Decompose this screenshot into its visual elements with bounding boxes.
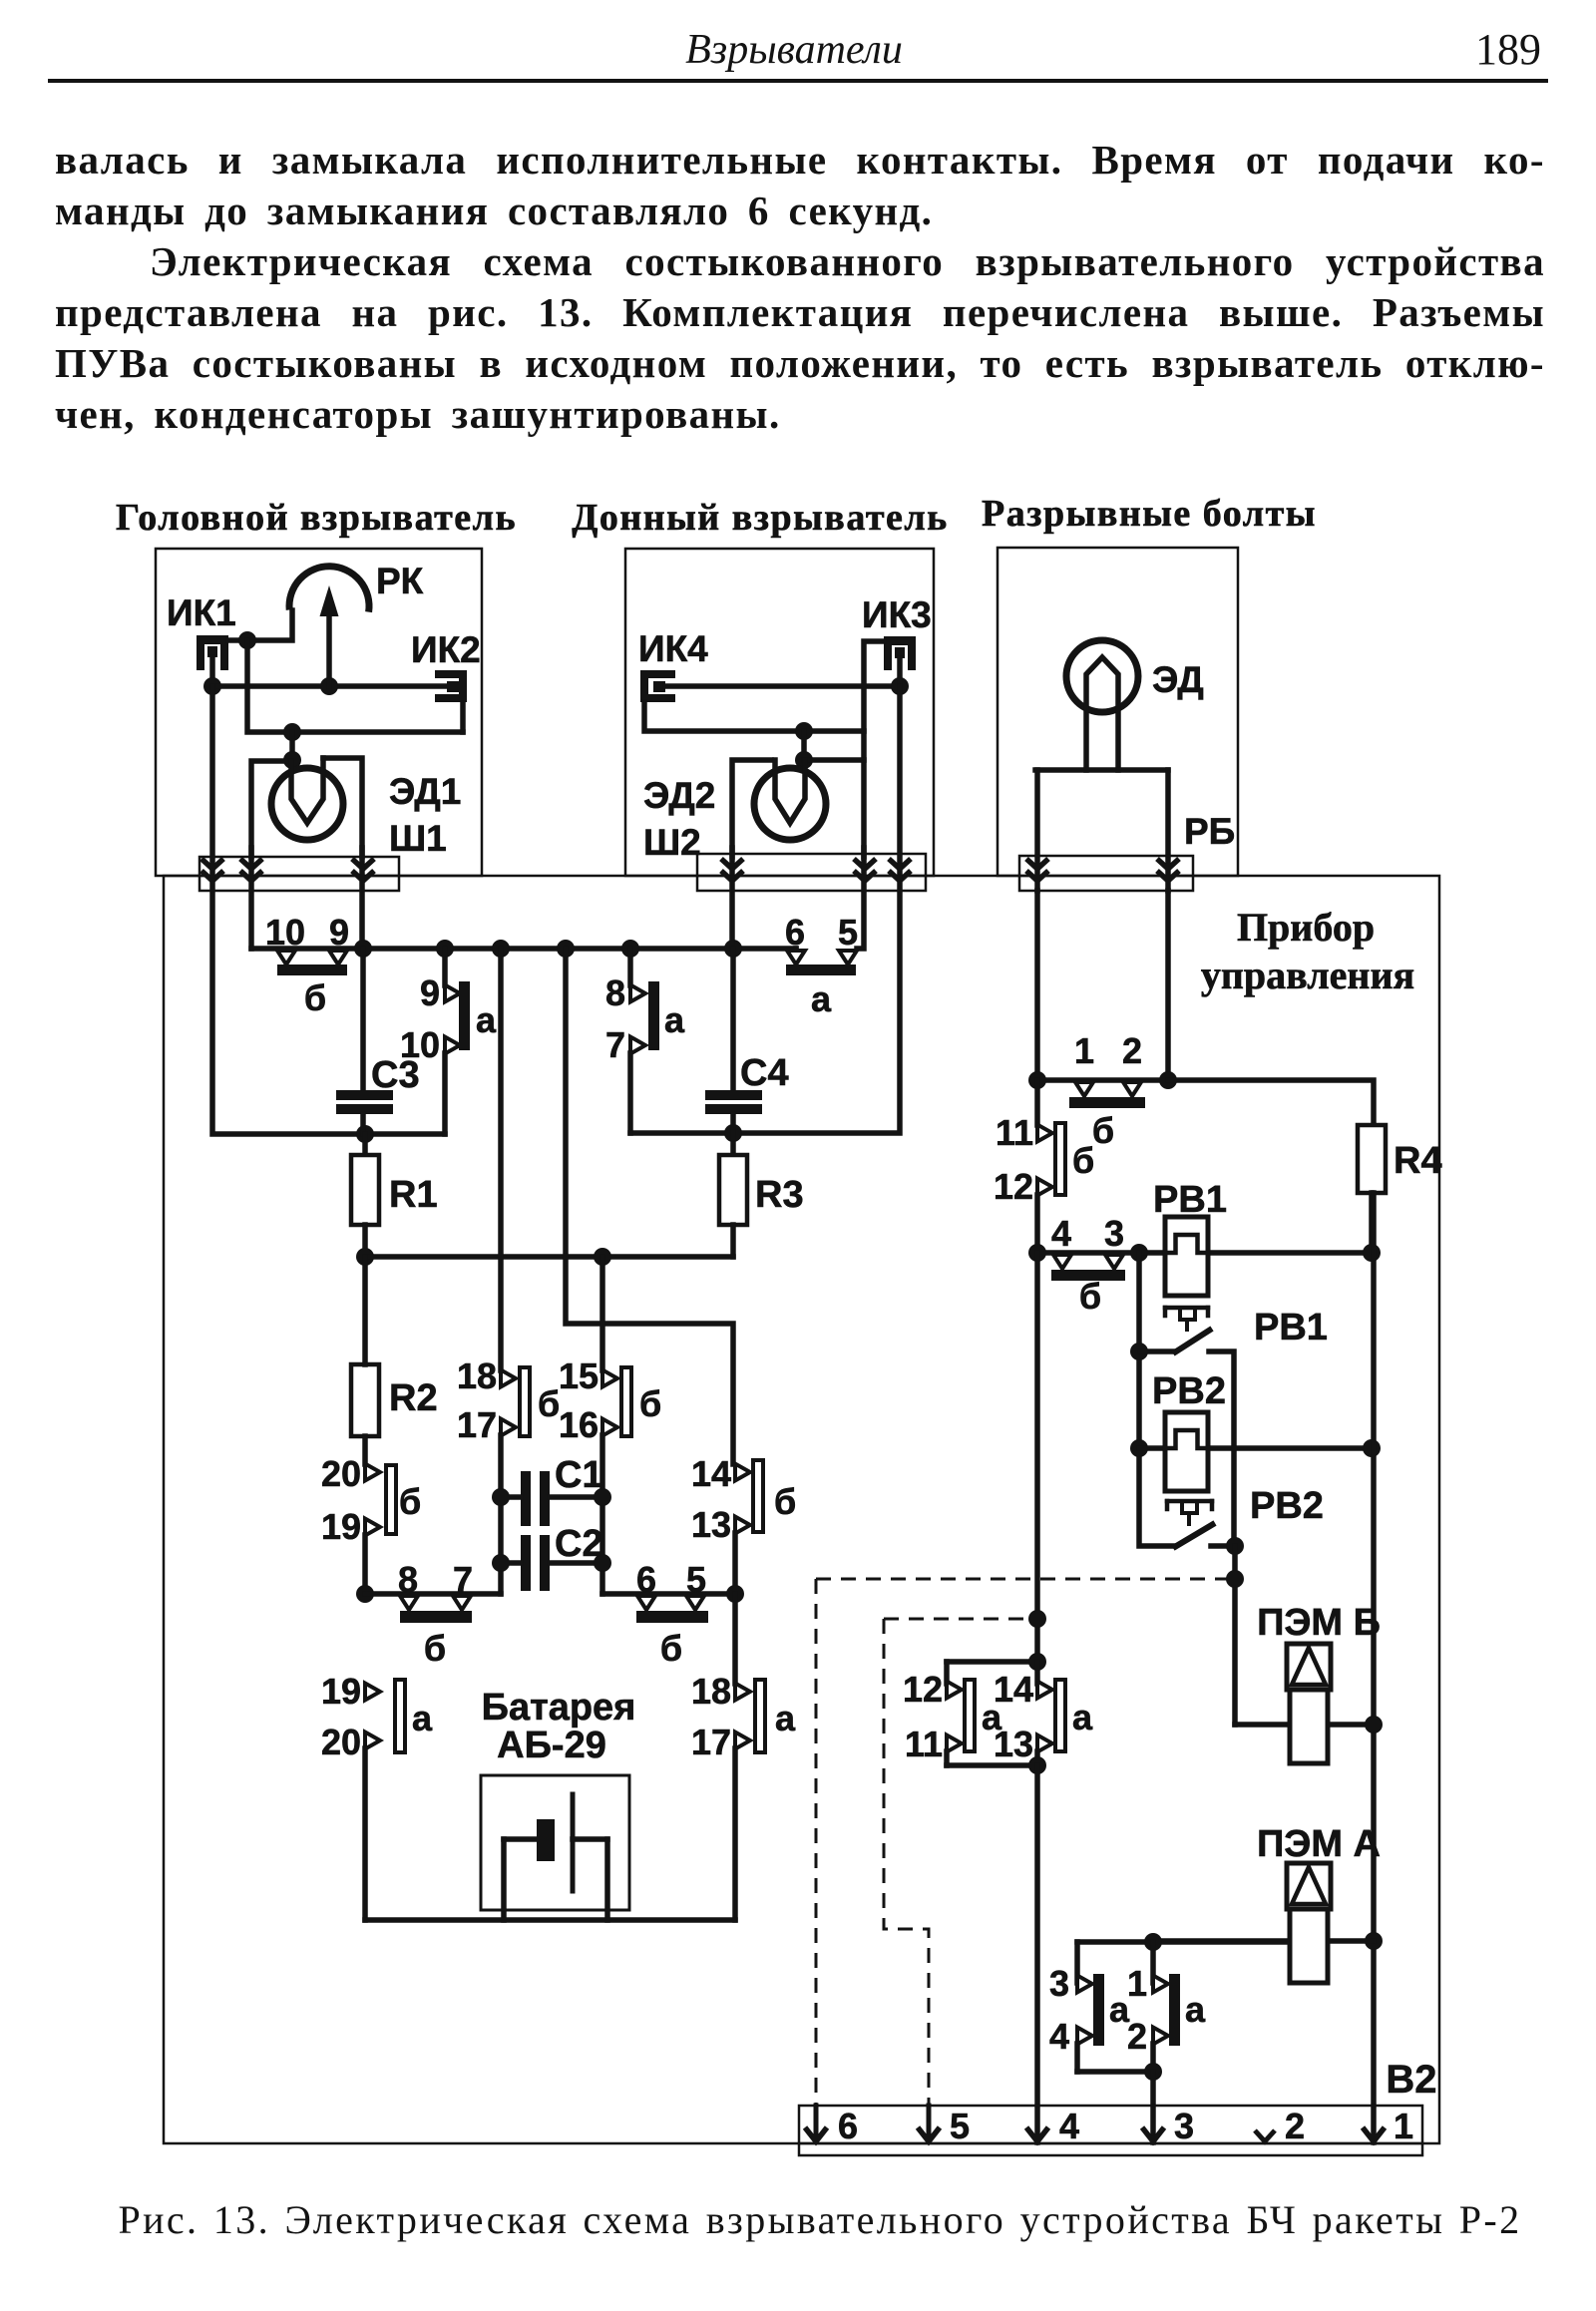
relay coil РВ2 xyxy=(1165,1412,1208,1491)
svg-text:7: 7 xyxy=(453,1559,473,1600)
electric detonator ЭД2 frame right xyxy=(804,757,864,763)
svg-text:РБ: РБ xyxy=(1184,811,1235,852)
svg-text:Ш1: Ш1 xyxy=(389,818,447,859)
contact К10-9 (б) xyxy=(277,951,295,964)
svg-text:б: б xyxy=(1079,1276,1101,1317)
svg-text:3: 3 xyxy=(1174,2106,1194,2146)
В2 pin 1 xyxy=(1363,2127,1385,2141)
dashed linkage line 1 xyxy=(816,1578,1235,1581)
svg-text:б: б xyxy=(538,1383,560,1424)
svg-text:18: 18 xyxy=(691,1671,731,1712)
svg-text:б: б xyxy=(399,1481,421,1522)
connector Ш1 xyxy=(199,857,399,891)
svg-text:20: 20 xyxy=(321,1722,361,1762)
electric detonator ЭД (РБ) xyxy=(1066,640,1138,712)
РК arrow xyxy=(326,608,332,686)
connector link 15/16 (б) xyxy=(599,1257,605,1370)
connector link 1/2 (а) xyxy=(1150,1942,1156,1983)
svg-text:9: 9 xyxy=(329,912,349,953)
contact К6-5 (б) rail xyxy=(602,1591,735,1597)
contact К6-5 (б) xyxy=(637,1596,655,1610)
electric detonator ЭД1 frame right xyxy=(323,758,362,857)
battery АБ-29 cell xyxy=(537,1819,555,1861)
wire РВ2 switch down to ПЭМ Б xyxy=(1232,1546,1238,1725)
dashed linkage vertical 2 to В2 pin 5 xyxy=(884,1619,929,2106)
wire battery terminals xyxy=(504,1836,537,1842)
box Разрывные болты xyxy=(997,548,1238,876)
inertial contact ИК4 xyxy=(640,670,675,678)
svg-text:14: 14 xyxy=(691,1453,731,1494)
В2 pin 4 xyxy=(1026,2127,1048,2141)
connector link 18/17 (б) xyxy=(498,949,504,1370)
svg-text:Ш2: Ш2 xyxy=(643,822,701,863)
electric detonator ЭД1 frame left xyxy=(251,761,287,857)
wire to В2 pin 4 xyxy=(1034,1765,1040,2142)
wire ИК4 tongue to ИК3 node xyxy=(665,683,900,689)
wire to ЭД1 xyxy=(289,732,295,760)
svg-text:ПЭМ А: ПЭМ А xyxy=(1257,1823,1381,1865)
svg-text:R4: R4 xyxy=(1394,1140,1442,1182)
node РВ1 switch pivot xyxy=(1130,1343,1148,1360)
battery АБ-29 box xyxy=(481,1775,629,1910)
wire Ш2 pin mid (ЭД2 right) to contact 5 xyxy=(857,848,864,949)
svg-text:б: б xyxy=(1092,1110,1114,1151)
node ЭД1 feed xyxy=(283,723,301,741)
squib electromagnet ПЭМ А xyxy=(1287,1863,1331,1909)
wire yoke left leg to connector РБ xyxy=(1034,770,1040,891)
node ИК1/РК/ИК2 line left xyxy=(203,677,221,695)
svg-text:ИК1: ИК1 xyxy=(167,592,236,633)
node ИК3 xyxy=(891,677,909,695)
svg-text:а: а xyxy=(664,999,685,1040)
resistor R3 xyxy=(719,1155,747,1225)
contact К4-3 (б) xyxy=(1053,1255,1071,1269)
svg-text:ИК2: ИК2 xyxy=(411,629,481,670)
resistor R2 xyxy=(351,1364,379,1436)
connector link 20/19 (б) xyxy=(362,1436,368,1464)
connector link 14/13 (а) xyxy=(1034,1662,1040,1684)
svg-text:16: 16 xyxy=(559,1404,598,1445)
svg-text:4: 4 xyxy=(1049,2016,1069,2057)
header running title xyxy=(674,26,914,74)
connector link 11/12 (б) xyxy=(1034,1080,1040,1125)
contact К8-7 (б) rail xyxy=(365,1591,501,1597)
wire ИК4 leg down and across xyxy=(644,702,864,731)
svg-text:б: б xyxy=(639,1383,661,1424)
link group rail top xyxy=(947,1659,1037,1665)
svg-text:б: б xyxy=(660,1628,682,1669)
node ЭД2 feed xyxy=(795,722,813,740)
bottom link group top rail xyxy=(1077,1939,1287,1945)
svg-text:Батарея: Батарея xyxy=(482,1687,636,1729)
inertial weight РК (arc) xyxy=(289,567,369,612)
svg-text:3: 3 xyxy=(1049,1963,1069,2004)
svg-text:б: б xyxy=(424,1628,446,1669)
svg-text:ЭД1: ЭД1 xyxy=(389,771,461,812)
node dashed link 2 xyxy=(1028,1610,1046,1628)
svg-text:17: 17 xyxy=(691,1722,731,1762)
wire РВ2 coil line xyxy=(1139,1445,1372,1451)
node R1 bottom xyxy=(356,1248,374,1266)
wire battery bottom rail xyxy=(365,1917,735,1923)
svg-text:6: 6 xyxy=(785,912,805,953)
В2 pin 6 xyxy=(814,2106,819,2134)
dashed linkage line 2 xyxy=(884,1618,1037,1621)
svg-text:б: б xyxy=(1072,1140,1094,1181)
wire Ш1 pin mid (ЭД1 left) to contact 10 xyxy=(248,848,254,949)
caption xyxy=(22,2196,1596,2243)
svg-text:Донный взрыватель: Донный взрыватель xyxy=(572,497,949,539)
node C3 bottom xyxy=(356,1125,374,1143)
svg-text:20: 20 xyxy=(321,1453,361,1494)
svg-text:17: 17 xyxy=(457,1404,497,1445)
svg-text:а: а xyxy=(476,999,497,1040)
svg-text:РВ1: РВ1 xyxy=(1254,1307,1328,1348)
svg-text:12: 12 xyxy=(903,1669,943,1710)
bus junctions xyxy=(354,940,372,958)
connector link 14/13 (б) xyxy=(735,1464,750,1481)
svg-text:РВ2: РВ2 xyxy=(1152,1370,1226,1412)
svg-text:2: 2 xyxy=(1127,2016,1147,2057)
bottom link group bottom rail xyxy=(1077,2069,1153,2075)
wire node to ИК2 tongue xyxy=(212,683,447,689)
wire ИК1 top bar to РК arc xyxy=(228,610,292,640)
connector link 8/7 (а) xyxy=(627,949,633,985)
wire ПЭМ А left xyxy=(1153,1938,1287,1944)
В2 pin 2 xyxy=(1255,2130,1275,2141)
svg-text:4: 4 xyxy=(1059,2106,1079,2146)
wire Ш2 pin left (ЭД2 left) to bus xyxy=(729,848,735,949)
wire ПЭМ Б left xyxy=(1235,1722,1287,1728)
inertial contact ИК1 xyxy=(197,635,228,644)
В2 pin 3 xyxy=(1142,2127,1164,2141)
wire ИК3 tongue down xyxy=(897,658,903,686)
svg-text:15: 15 xyxy=(559,1355,598,1396)
connector РБ xyxy=(1019,856,1193,891)
svg-text:3: 3 xyxy=(1104,1213,1124,1254)
svg-text:8: 8 xyxy=(398,1559,418,1600)
dashed linkage vertical 1 to В2 pin 6 xyxy=(815,1579,818,2106)
electric detonator ЭД2 xyxy=(754,768,826,840)
svg-text:5: 5 xyxy=(838,912,858,953)
svg-text:2: 2 xyxy=(1122,1030,1142,1071)
node battery right top xyxy=(726,1585,744,1603)
svg-text:а: а xyxy=(811,978,832,1019)
svg-text:С3: С3 xyxy=(371,1054,420,1096)
svg-text:ИК4: ИК4 xyxy=(638,628,708,669)
wire Ш1 pin right (ЭД1 right) to bus xyxy=(359,848,365,949)
connector link 12/11 (а) xyxy=(944,1662,950,1684)
wire R4 to К4-3 rail xyxy=(1369,1193,1375,1253)
svg-text:9: 9 xyxy=(420,972,440,1013)
svg-text:18: 18 xyxy=(457,1355,497,1396)
box Головной взрыватель xyxy=(156,549,482,876)
header rule xyxy=(48,79,1548,83)
squib electromagnet ПЭМ Б xyxy=(1287,1644,1331,1690)
svg-text:управления: управления xyxy=(1201,953,1414,997)
wire ИК1 node down / across to ИК2 leg xyxy=(247,640,463,732)
connector link 3/4 (а) xyxy=(1074,1942,1080,1983)
connector link 19/20 (а) xyxy=(365,1684,380,1701)
body paragraphs xyxy=(55,135,1545,440)
svg-text:R1: R1 xyxy=(389,1174,438,1216)
svg-text:5: 5 xyxy=(950,2106,970,2146)
contact К10-9 (б) rail xyxy=(251,946,363,952)
svg-text:РВ2: РВ2 xyxy=(1250,1485,1324,1527)
wire ПЭМ Б right xyxy=(1331,1722,1374,1728)
svg-text:С4: С4 xyxy=(740,1052,789,1094)
wire РБ left pin down xyxy=(1034,891,1040,1080)
svg-text:Головной взрыватель: Головной взрыватель xyxy=(116,497,517,539)
svg-text:7: 7 xyxy=(605,1024,625,1065)
node РВ2 coil left xyxy=(1130,1439,1148,1457)
svg-text:6: 6 xyxy=(838,2106,858,2146)
svg-text:19: 19 xyxy=(321,1506,361,1547)
svg-text:АБ-29: АБ-29 xyxy=(497,1725,606,1766)
svg-text:а: а xyxy=(1185,1989,1206,2030)
contact К8-7 (б) xyxy=(400,1596,418,1610)
wire ЭД yoke xyxy=(1035,767,1168,773)
capacitor C3 xyxy=(360,949,366,1090)
svg-text:ИК3: ИК3 xyxy=(862,594,932,635)
svg-text:11: 11 xyxy=(996,1112,1033,1153)
svg-text:8: 8 xyxy=(605,972,625,1013)
svg-text:12: 12 xyxy=(994,1166,1033,1207)
svg-text:1: 1 xyxy=(1394,2106,1413,2146)
wire Ш1 pin left long (ИК1 line) xyxy=(212,686,445,1134)
svg-text:а: а xyxy=(412,1698,433,1738)
resistor R1 xyxy=(362,1134,368,1155)
svg-text:1: 1 xyxy=(1127,1963,1147,2004)
connector link 18/17 (а) xyxy=(732,1594,738,1684)
contact К1-2 (б) rail xyxy=(1037,1077,1168,1083)
relay switch РВ2 xyxy=(1167,1499,1212,1504)
node РК arrow base xyxy=(320,677,338,695)
connector В2 box xyxy=(799,2106,1422,2155)
wire ИК1 tongue down to node xyxy=(209,657,215,686)
svg-text:С1: С1 xyxy=(555,1454,603,1496)
page number 189 xyxy=(1428,24,1541,75)
wire yoke right leg to connector РБ xyxy=(1165,770,1171,891)
capacitor C4 xyxy=(730,949,736,1090)
svg-text:13: 13 xyxy=(691,1504,731,1545)
svg-text:Прибор: Прибор xyxy=(1237,905,1375,950)
svg-text:С2: С2 xyxy=(555,1523,603,1565)
wire РБ right pin down xyxy=(1165,891,1171,1080)
svg-text:6: 6 xyxy=(636,1559,656,1600)
relay switch РВ1 xyxy=(1165,1306,1208,1311)
svg-text:б: б xyxy=(304,977,326,1018)
svg-text:2: 2 xyxy=(1285,2106,1305,2146)
wire left column through links to В2 pin 4 xyxy=(1034,1253,1040,1662)
svg-text:РВ1: РВ1 xyxy=(1153,1179,1227,1221)
capacitor C1 xyxy=(521,1471,531,1526)
electric detonator ЭД2 frame left xyxy=(732,760,771,857)
svg-text:В2: В2 xyxy=(1386,2058,1436,2102)
node dashed link xyxy=(1226,1570,1244,1588)
node ИК1 bar / down wire xyxy=(238,631,256,649)
contact К1-2 (б) xyxy=(1075,1082,1093,1096)
node РВ2 switch out xyxy=(1226,1537,1244,1555)
box Донный взрыватель xyxy=(625,549,934,876)
svg-text:1: 1 xyxy=(1074,1030,1094,1071)
wire К1-2 to R4 xyxy=(1168,1080,1374,1125)
svg-text:Разрывные болты: Разрывные болты xyxy=(982,493,1317,535)
svg-text:R2: R2 xyxy=(389,1377,438,1419)
node C4 bottom xyxy=(724,1124,742,1142)
resistor R4 xyxy=(1358,1125,1386,1193)
svg-text:а: а xyxy=(1072,1697,1093,1737)
link group rail bottom xyxy=(947,1762,1037,1768)
wire line B (bus to contact 14) xyxy=(566,949,733,1464)
svg-text:а: а xyxy=(775,1698,796,1738)
right rail xyxy=(1371,1193,1377,2142)
connector Ш2 xyxy=(697,854,926,891)
inertial contact ИК3 xyxy=(884,636,916,645)
svg-text:13: 13 xyxy=(994,1724,1033,1764)
svg-text:10: 10 xyxy=(265,912,305,953)
wire to ЭД2 xyxy=(801,731,807,760)
wire to В2 pin 3 xyxy=(1150,2072,1156,2142)
electric detonator ЭД1 xyxy=(271,768,343,840)
В2 pin 5 xyxy=(927,2106,932,2134)
relay coil РВ1 xyxy=(1165,1217,1208,1296)
wire К4-3 to right rail through РВ1 coil xyxy=(1139,1250,1372,1256)
wire left column К4-3 to РВ2 switch xyxy=(1139,1253,1173,1546)
svg-text:R3: R3 xyxy=(755,1174,804,1216)
svg-text:ЭД2: ЭД2 xyxy=(643,775,715,816)
wire node line A (R1-R3 bottoms) xyxy=(365,1254,733,1260)
svg-text:4: 4 xyxy=(1051,1213,1071,1254)
contact К4-3 (б) rail xyxy=(1037,1250,1139,1256)
capacitor C2 xyxy=(521,1535,531,1591)
svg-text:11: 11 xyxy=(905,1724,943,1764)
svg-text:б: б xyxy=(774,1481,796,1522)
wire Ш2 pin right long (ИК3 line) xyxy=(630,686,900,1133)
svg-text:14: 14 xyxy=(994,1669,1033,1710)
main bus xyxy=(363,946,796,952)
svg-text:ЭД: ЭД xyxy=(1152,659,1204,700)
outer enclosure box (ПУВ) xyxy=(164,876,1439,2143)
svg-text:5: 5 xyxy=(686,1559,706,1600)
svg-text:ПЭМ Б: ПЭМ Б xyxy=(1257,1602,1381,1644)
wire ИК3 top bar to ЭД2 right xyxy=(864,641,884,857)
contact К6-5 (а) top xyxy=(793,949,799,951)
inertial contact ИК2 xyxy=(435,670,467,678)
svg-text:РК: РК xyxy=(376,561,424,601)
wire ПЭМ А right xyxy=(1331,1938,1374,1944)
node battery left top xyxy=(356,1585,374,1603)
svg-text:19: 19 xyxy=(321,1671,361,1712)
connector link 9/10 (а) xyxy=(442,949,448,985)
